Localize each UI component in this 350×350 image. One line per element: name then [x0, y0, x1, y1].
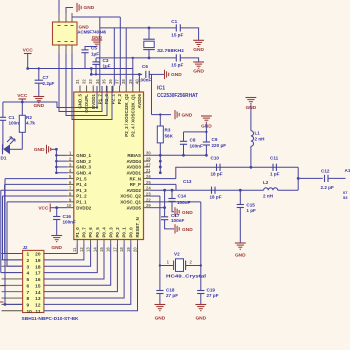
svg-text:P0_2: P0_2	[115, 227, 120, 238]
svg-text:53: 53	[343, 195, 348, 200]
svg-text:GND: GND	[195, 316, 206, 322]
svg-text:GND: GND	[182, 210, 193, 216]
svg-text:P1_2: P1_2	[76, 194, 87, 199]
svg-text:C8: C8	[190, 137, 196, 142]
svg-text:11: 11	[72, 247, 77, 252]
svg-text:GND: GND	[84, 5, 95, 11]
svg-text:HC49_Crystal: HC49_Crystal	[166, 274, 206, 279]
svg-text:36: 36	[108, 79, 113, 84]
svg-text:100nF: 100nF	[138, 77, 151, 82]
svg-text:32.768KHz: 32.768KHz	[157, 48, 185, 54]
svg-text:C18: C18	[166, 288, 175, 293]
svg-text:2.2µF: 2.2µF	[43, 81, 55, 86]
svg-text:C14: C14	[178, 194, 187, 199]
svg-text:RF_N: RF_N	[130, 176, 141, 181]
svg-text:14: 14	[35, 290, 41, 296]
svg-text:AVDD1: AVDD1	[126, 170, 141, 175]
svg-text:C10: C10	[211, 156, 220, 161]
svg-text:18 pF: 18 pF	[211, 172, 223, 177]
svg-text:31: 31	[75, 79, 80, 84]
svg-text:C12: C12	[321, 168, 330, 173]
svg-text:RESET_N: RESET_N	[135, 217, 140, 237]
svg-text:11: 11	[35, 309, 40, 315]
svg-text:AVDD5: AVDD5	[126, 205, 141, 210]
svg-text:37: 37	[115, 79, 120, 84]
svg-text:220 pF: 220 pF	[212, 143, 227, 148]
svg-text:27 pF: 27 pF	[207, 293, 219, 298]
svg-text:56K: 56K	[165, 134, 174, 139]
svg-text:P1_0: P1_0	[75, 227, 80, 238]
svg-text:P1_4: P1_4	[76, 182, 87, 187]
svg-text:GND_2: GND_2	[76, 159, 91, 164]
svg-text:DVDD1: DVDD1	[91, 93, 96, 108]
svg-text:C19: C19	[207, 288, 216, 293]
svg-text:V2: V2	[174, 252, 180, 257]
svg-text:IC1: IC1	[157, 86, 165, 92]
svg-text:RBIAS: RBIAS	[127, 153, 141, 158]
svg-text:C7: C7	[43, 75, 49, 80]
svg-text:C13: C13	[183, 179, 192, 184]
svg-text:GND_5: GND_5	[78, 93, 83, 108]
svg-text:16: 16	[106, 247, 111, 252]
svg-text:AVDD3: AVDD3	[126, 165, 141, 170]
svg-text:33: 33	[88, 79, 93, 84]
svg-text:18: 18	[35, 264, 41, 270]
svg-text:GND_3: GND_3	[76, 165, 91, 170]
svg-text:12: 12	[79, 247, 84, 252]
svg-text:28: 28	[146, 157, 151, 162]
svg-text:VCC: VCC	[38, 206, 49, 212]
svg-text:P0_3: P0_3	[108, 227, 113, 238]
svg-text:2: 2	[27, 258, 30, 264]
svg-text:100nF: 100nF	[190, 143, 203, 148]
svg-text:P2_3 / XOSC32K_Q2: P2_3 / XOSC32K_Q2	[124, 93, 129, 136]
svg-text:2 nH: 2 nH	[263, 194, 274, 199]
svg-text:C5: C5	[91, 45, 97, 50]
svg-text:100nF: 100nF	[63, 220, 76, 225]
svg-text:14: 14	[92, 247, 97, 252]
svg-text:C1: C1	[9, 115, 15, 120]
svg-text:GND: GND	[155, 316, 166, 322]
svg-text:27 pF: 27 pF	[166, 293, 178, 298]
svg-text:GND: GND	[79, 25, 90, 30]
svg-text:16: 16	[35, 277, 41, 283]
svg-text:P2_1: P2_1	[111, 93, 116, 104]
svg-text:P1_3: P1_3	[76, 188, 87, 193]
svg-text:GND: GND	[193, 47, 204, 53]
svg-text:DCOUPL: DCOUPL	[84, 94, 89, 113]
svg-text:C3: C3	[103, 58, 109, 63]
svg-text:C9: C9	[212, 137, 218, 142]
svg-text:P1_5: P1_5	[76, 176, 87, 181]
svg-text:GND: GND	[235, 253, 246, 259]
svg-text:P2_2: P2_2	[117, 93, 122, 104]
svg-text:GND: GND	[182, 227, 193, 233]
svg-text:C11: C11	[270, 156, 279, 161]
svg-text:10: 10	[67, 203, 72, 208]
svg-text:DVDD2: DVDD2	[76, 205, 91, 210]
svg-text:J2: J2	[23, 245, 28, 250]
svg-text:39: 39	[128, 79, 133, 84]
svg-text:R2: R2	[26, 115, 32, 120]
svg-text:8: 8	[27, 296, 30, 302]
svg-text:15: 15	[35, 283, 41, 289]
svg-text:L1: L1	[255, 131, 261, 136]
svg-text:P1_1: P1_1	[76, 200, 87, 205]
svg-text:18: 18	[119, 247, 124, 252]
svg-text:GND: GND	[171, 72, 182, 78]
svg-text:32: 32	[82, 79, 87, 84]
svg-text:12: 12	[35, 302, 41, 308]
svg-text:38: 38	[121, 79, 126, 84]
svg-text:13: 13	[35, 296, 41, 302]
svg-text:1 pF: 1 pF	[246, 208, 256, 213]
svg-text:RF_P: RF_P	[130, 182, 141, 187]
svg-text:5: 5	[27, 277, 30, 283]
svg-text:P0_5: P0_5	[95, 227, 100, 238]
svg-text:C1: C1	[171, 19, 177, 24]
svg-text:AVDD6: AVDD6	[137, 93, 142, 108]
svg-text:P0_6: P0_6	[88, 227, 93, 238]
svg-text:GND_1: GND_1	[76, 153, 91, 158]
svg-text:1: 1	[27, 252, 30, 258]
svg-text:35: 35	[101, 79, 106, 84]
svg-text:GND: GND	[193, 69, 204, 75]
svg-text:XOSC_Q1: XOSC_Q1	[120, 200, 141, 205]
svg-text:AVDD4: AVDD4	[126, 159, 141, 164]
svg-text:GND: GND	[33, 103, 44, 109]
svg-text:9: 9	[27, 302, 30, 308]
svg-text:34: 34	[95, 79, 100, 84]
svg-text:GND: GND	[51, 245, 62, 251]
svg-text:P2_4 / XOSC32K_Q1: P2_4 / XOSC32K_Q1	[130, 93, 135, 136]
svg-text:100nF: 100nF	[171, 218, 184, 223]
svg-text:20: 20	[35, 252, 41, 258]
svg-text:100nF: 100nF	[177, 200, 190, 205]
svg-text:R3: R3	[165, 128, 171, 133]
svg-text:SBH11-NBPC-D10-ST-BK: SBH11-NBPC-D10-ST-BK	[22, 316, 80, 322]
svg-text:15 pF: 15 pF	[171, 33, 183, 38]
svg-text:XOSC_Q2: XOSC_Q2	[120, 194, 141, 199]
svg-text:17: 17	[35, 271, 41, 277]
svg-text:C6: C6	[142, 64, 148, 69]
svg-text:4.7k: 4.7k	[26, 121, 35, 126]
svg-text:2 nH: 2 nH	[255, 137, 266, 142]
svg-text:VCC: VCC	[17, 93, 28, 99]
svg-text:17: 17	[112, 247, 117, 252]
svg-text:21: 21	[146, 168, 151, 173]
svg-text:P0_4: P0_4	[102, 227, 107, 238]
svg-text:19: 19	[35, 258, 41, 264]
svg-text:VCC: VCC	[23, 48, 34, 54]
svg-text:13: 13	[86, 247, 91, 252]
svg-text:A1: A1	[345, 168, 350, 173]
svg-text:19: 19	[126, 247, 131, 252]
svg-text:GND: GND	[34, 147, 45, 153]
svg-text:15: 15	[99, 247, 104, 252]
svg-text:C15: C15	[246, 203, 255, 208]
svg-text:4: 4	[27, 271, 30, 277]
svg-text:7: 7	[27, 290, 30, 296]
svg-text:GND: GND	[92, 35, 103, 40]
svg-text:20: 20	[133, 247, 138, 252]
svg-text:27: 27	[146, 162, 151, 167]
svg-text:C16: C16	[63, 214, 72, 219]
svg-text:3: 3	[27, 264, 30, 270]
svg-text:L2: L2	[263, 180, 269, 185]
svg-text:1 pF: 1 pF	[270, 172, 280, 177]
svg-text:1µF: 1µF	[91, 51, 99, 56]
svg-text:1µF: 1µF	[103, 63, 111, 68]
svg-text:6: 6	[27, 283, 30, 289]
svg-text:GND_4: GND_4	[76, 170, 91, 175]
svg-text:2.2 pF: 2.2 pF	[321, 185, 334, 190]
svg-text:P0_0: P0_0	[128, 227, 133, 238]
svg-text:AVDD2: AVDD2	[126, 188, 141, 193]
svg-text:P0_7: P0_7	[82, 227, 87, 238]
svg-text:D1: D1	[1, 156, 7, 161]
svg-text:CC2530F256RHAT: CC2530F256RHAT	[157, 93, 199, 99]
svg-text:15 pF: 15 pF	[171, 63, 183, 68]
svg-text:10: 10	[27, 309, 33, 315]
svg-text:18 pF: 18 pF	[210, 195, 222, 200]
svg-text:GND: GND	[182, 112, 193, 118]
svg-text:P0_1: P0_1	[122, 227, 127, 238]
